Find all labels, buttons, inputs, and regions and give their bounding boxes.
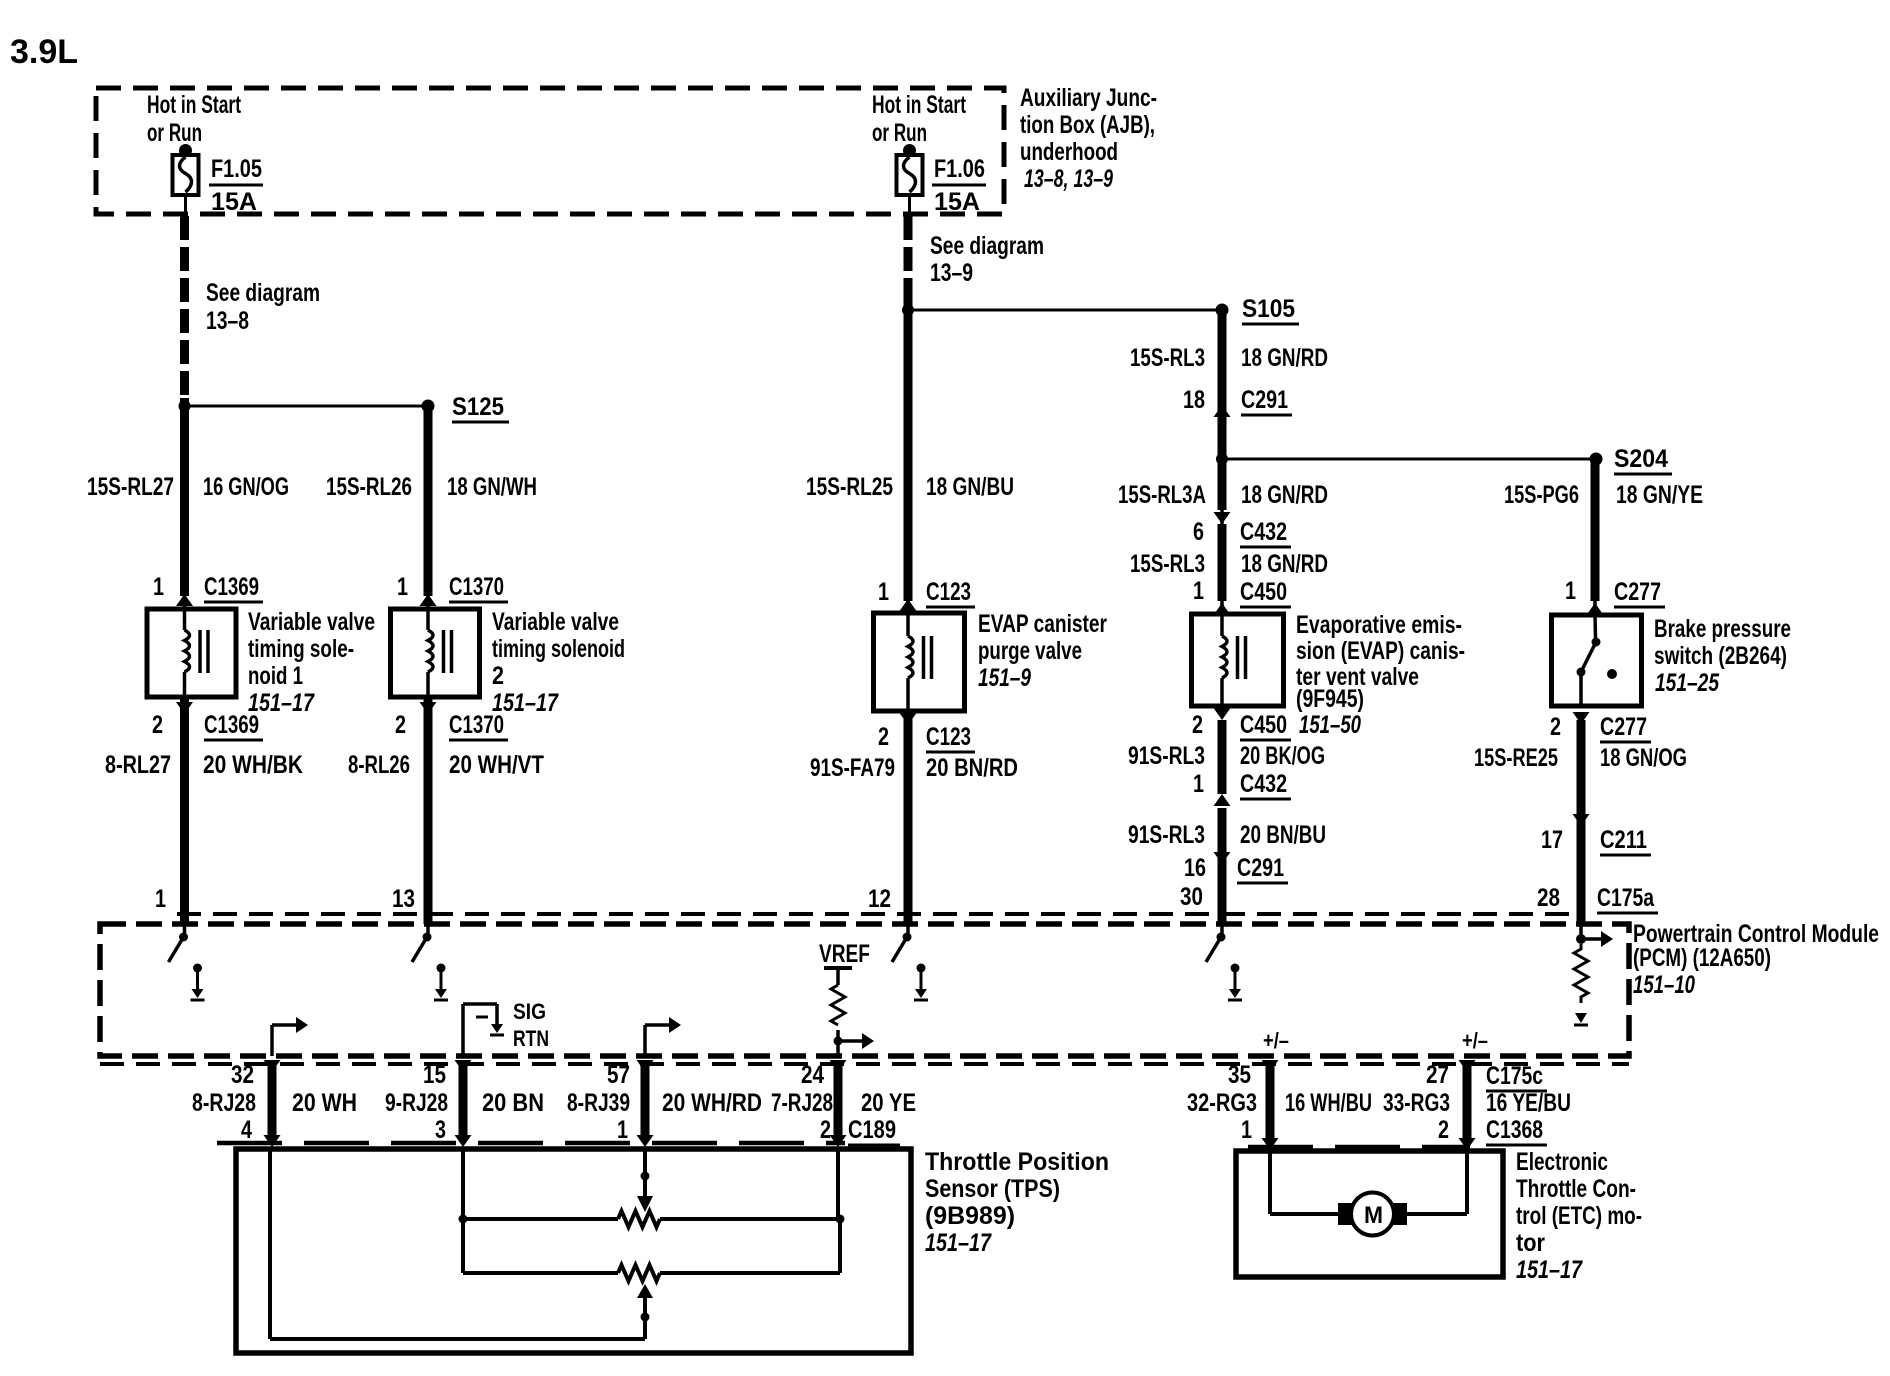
- powertrain control module PCM box (dashed): [100, 914, 1629, 1064]
- svg-text:16 GN/OG: 16 GN/OG: [203, 473, 289, 501]
- svg-text:C123: C123: [926, 578, 971, 606]
- svg-text:91S-FA79: 91S-FA79: [810, 754, 895, 782]
- label 15S-RL26 18 GN/WH: [326, 473, 537, 501]
- svg-text:15S-RL27: 15S-RL27: [87, 473, 174, 501]
- PCM driver switch for pin 13: [412, 924, 448, 1000]
- svg-text:or Run: or Run: [147, 119, 202, 147]
- connector arrow up at C277-1: [1587, 601, 1604, 615]
- EVAP canister vent valve (box with coil): [1192, 614, 1284, 706]
- svg-text:1: 1: [153, 573, 164, 601]
- svg-text:91S-RL3: 91S-RL3: [1128, 821, 1205, 849]
- label 8-RJ39 20 WH/RD: [567, 1089, 762, 1117]
- label PCM pin 35: [1228, 1061, 1251, 1089]
- label connector C1368: [1486, 1116, 1547, 1145]
- label pin 1 C432 (lower): [1193, 770, 1291, 799]
- svg-text:15S-RE25: 15S-RE25: [1474, 744, 1558, 772]
- svg-text:30: 30: [1180, 883, 1203, 911]
- motor M (ETC): [1338, 1193, 1407, 1236]
- brake pressure switch (box with switch contacts): [1552, 615, 1642, 706]
- svg-text:Brake pressure: Brake pressure: [1654, 615, 1791, 643]
- svg-text:1: 1: [617, 1116, 628, 1144]
- label pin 18 C291: [1183, 386, 1292, 415]
- PCM VREF circuit for pin 24: [819, 940, 874, 1056]
- svg-text:switch (2B264): switch (2B264): [1654, 642, 1787, 670]
- label pin 6 C432: [1193, 518, 1291, 547]
- wire splice link to S204: [1222, 458, 1596, 461]
- label Variable valve timing solenoid 2 151-17: [492, 608, 625, 717]
- connector arrow down at C1370-2: [395, 702, 508, 740]
- svg-text:6: 6: [1193, 518, 1204, 546]
- PCM driver switch for pin 12: [892, 924, 928, 1000]
- wire S125 to solenoid 2: [424, 406, 433, 596]
- svg-text:1: 1: [1241, 1116, 1252, 1144]
- svg-text:RTN: RTN: [513, 1026, 549, 1051]
- label C175c: [1486, 1062, 1547, 1091]
- label Powertrain Control Module (PCM) (12A650) 151-10: [1633, 920, 1879, 999]
- label 15S-RL3 18 GN/RD (above C291): [1130, 344, 1328, 372]
- svg-text:or Run: or Run: [872, 119, 927, 147]
- svg-text:M: M: [1364, 1202, 1383, 1229]
- svg-text:Throttle Con-: Throttle Con-: [1516, 1175, 1636, 1203]
- svg-text:2: 2: [878, 723, 889, 751]
- svg-text:sion (EVAP) canis-: sion (EVAP) canis-: [1296, 637, 1465, 665]
- splice S204: [1590, 445, 1673, 474]
- fuse F1.06: [897, 144, 923, 195]
- svg-text:28: 28: [1537, 884, 1560, 912]
- wire 3 to EVAP purge valve: [904, 302, 913, 601]
- label PCM pin 24: [801, 1061, 824, 1089]
- label 8-RL27 20 WH/BK: [105, 751, 303, 779]
- node junction on wire 3: [902, 304, 914, 316]
- label 91S-RL3 20 BK/OG: [1128, 742, 1325, 770]
- svg-text:15S-PG6: 15S-PG6: [1504, 481, 1579, 509]
- svg-text:32: 32: [231, 1061, 254, 1089]
- wire PCM pin 15 to TPS pin 3: [455, 1060, 472, 1147]
- PCM driver switch for pin 30: [1206, 924, 1242, 1000]
- label 7-RJ28 20 YE: [771, 1089, 916, 1117]
- ETC internal wire motor to pin 2: [1405, 1151, 1467, 1214]
- label TPS pin 3: [435, 1116, 446, 1144]
- ETC internal wire pin 1 to motor: [1270, 1151, 1340, 1214]
- svg-text:32-RG3: 32-RG3: [1187, 1089, 1257, 1117]
- splice S125: [422, 393, 510, 422]
- wire junction to C432: [1218, 459, 1227, 510]
- label 32-RG3 16 WH/BU: [1187, 1089, 1372, 1117]
- svg-text:timing sole-: timing sole-: [248, 635, 354, 663]
- svg-text:C450: C450: [1240, 578, 1287, 606]
- svg-text:15: 15: [423, 1061, 446, 1089]
- svg-text:15S-RL3: 15S-RL3: [1130, 550, 1205, 578]
- wire solenoid 1 to PCM pin 1: [180, 697, 189, 924]
- fuse F1.05: [173, 144, 199, 195]
- PCM output arrow for pin 57: [645, 1017, 681, 1056]
- svg-text:2: 2: [820, 1116, 831, 1144]
- svg-text:18 GN/WH: 18 GN/WH: [447, 473, 537, 501]
- label 33-RG3 16 YE/BU: [1383, 1089, 1571, 1117]
- svg-text:tor: tor: [1516, 1229, 1545, 1257]
- svg-text:2: 2: [1438, 1116, 1449, 1144]
- splice S105: [1216, 295, 1300, 324]
- wire C432 to C450: [1218, 524, 1227, 601]
- svg-text:8-RL26: 8-RL26: [348, 751, 410, 779]
- label Hot in Start or Run (left): [147, 91, 241, 147]
- svg-text:20 WH/VT: 20 WH/VT: [449, 751, 544, 779]
- svg-text:C277: C277: [1614, 578, 1661, 606]
- label See diagram 13-9: [930, 232, 1044, 287]
- svg-text:C1369: C1369: [204, 711, 259, 739]
- svg-text:151–10: 151–10: [1633, 971, 1695, 999]
- wire from F1.05 dashed segment (see diagram 13-8): [180, 216, 189, 398]
- svg-text:8-RJ28: 8-RJ28: [192, 1089, 256, 1117]
- label 91S-FA79 20 BN/RD: [810, 754, 1018, 782]
- variable valve timing solenoid 1 (box with coil): [147, 609, 236, 697]
- svg-text:18 GN/RD: 18 GN/RD: [1241, 550, 1328, 578]
- svg-text:8-RJ39: 8-RJ39: [567, 1089, 630, 1117]
- svg-text:Evaporative emis-: Evaporative emis-: [1296, 611, 1462, 639]
- TPS internal wire pin 1 wiper (arrow down): [637, 1151, 653, 1212]
- svg-text:purge valve: purge valve: [978, 637, 1082, 665]
- wire PCM pin 57 to TPS pin 1: [637, 1060, 654, 1147]
- label 8-RJ28 20 WH: [192, 1089, 357, 1117]
- label PCM pin 13: [392, 885, 415, 913]
- svg-text:151–17: 151–17: [925, 1229, 992, 1257]
- PCM output arrow for pin 32: [272, 1017, 308, 1056]
- svg-text:1: 1: [155, 885, 166, 913]
- svg-text:151–17: 151–17: [1516, 1256, 1583, 1284]
- label 15S-RE25 18 GN/OG: [1474, 744, 1687, 772]
- svg-text:151–9: 151–9: [978, 664, 1031, 692]
- label 15S-PG6 18 GN/YE: [1504, 481, 1703, 509]
- label Electronic Throttle Control (ETC) motor 151-17: [1516, 1148, 1642, 1284]
- connector arrow down at C291 lower (in-line): [1214, 852, 1231, 864]
- svg-text:91S-RL3: 91S-RL3: [1128, 742, 1205, 770]
- PCM input circuit for pin 28 (pull-up resistor to ground): [1574, 924, 1613, 1025]
- wire PCM pin 32 to TPS pin 4: [264, 1060, 281, 1147]
- label Throttle Position Sensor (TPS) (9B989) 151-17: [925, 1148, 1109, 1257]
- label 91S-RL3 20 BN/BU: [1128, 821, 1326, 849]
- connector arrow up at C123-1: [900, 599, 917, 613]
- label TPS pin 4: [241, 1116, 252, 1144]
- svg-text:F1.06: F1.06: [934, 155, 985, 183]
- svg-text:timing solenoid: timing solenoid: [492, 635, 625, 663]
- connector C189 mating line (dashed): [217, 1141, 845, 1146]
- svg-text:See diagram: See diagram: [930, 232, 1044, 260]
- svg-text:2: 2: [1550, 713, 1561, 741]
- svg-text:27: 27: [1426, 1061, 1449, 1089]
- wire C450 to C432 (lower): [1218, 720, 1227, 794]
- svg-text:C175a: C175a: [1597, 884, 1655, 912]
- svg-text:1: 1: [397, 573, 408, 601]
- svg-text:151–25: 151–25: [1655, 669, 1720, 697]
- label TPS pin 2: [820, 1116, 831, 1144]
- wire splice link to S125: [185, 405, 429, 408]
- svg-text:(9F945): (9F945): [1296, 685, 1364, 713]
- label PCM pin 1: [155, 885, 166, 913]
- svg-text:C123: C123: [926, 723, 971, 751]
- connector arrow down at C432 (in-line): [1214, 510, 1231, 524]
- title 3.9L: [10, 33, 78, 71]
- label pin 16 C291 (lower): [1184, 854, 1288, 883]
- label 15S-RL3 18 GN/RD (below C432): [1130, 550, 1328, 578]
- svg-text:9-RJ28: 9-RJ28: [385, 1089, 448, 1117]
- svg-text:C1368: C1368: [1486, 1116, 1543, 1144]
- label 9-RJ28 20 BN: [385, 1089, 544, 1117]
- label PCM pin 27: [1426, 1061, 1449, 1089]
- svg-text:20 BN/RD: 20 BN/RD: [926, 754, 1018, 782]
- variable valve timing solenoid 2 (box with coil): [391, 609, 480, 697]
- wire C211 to PCM pin 28: [1577, 826, 1586, 924]
- label ETC pin 1: [1241, 1116, 1252, 1144]
- svg-text:Hot in Start: Hot in Start: [147, 91, 241, 119]
- wire S105 down to C291: [1218, 310, 1227, 405]
- svg-text:57: 57: [607, 1061, 630, 1089]
- svg-text:13–8, 13–9: 13–8, 13–9: [1024, 165, 1113, 193]
- connector arrow up at C1369-1: [176, 594, 193, 609]
- wire PCM pin 24 to TPS pin 2: [830, 1060, 847, 1147]
- svg-text:+/–: +/–: [1263, 1028, 1289, 1053]
- svg-text:33-RG3: 33-RG3: [1383, 1089, 1450, 1117]
- label Hot in Start or Run (right): [872, 91, 966, 147]
- label TPS pin 1: [617, 1116, 628, 1144]
- wire EVAP purge valve to PCM pin 12: [904, 711, 913, 924]
- label pin 1 C277: [1565, 577, 1665, 607]
- svg-text:15S-RL3: 15S-RL3: [1130, 344, 1205, 372]
- svg-text:18 GN/YE: 18 GN/YE: [1616, 481, 1703, 509]
- label Brake pressure switch (2B264) 151-25: [1654, 615, 1791, 697]
- label 15S-RL25 18 GN/BU: [806, 473, 1014, 501]
- svg-text:17: 17: [1541, 826, 1563, 854]
- svg-text:15A: 15A: [211, 188, 257, 216]
- label +/- at pin 27: [1462, 1028, 1488, 1053]
- svg-text:VREF: VREF: [819, 940, 870, 968]
- svg-text:35: 35: [1228, 1061, 1251, 1089]
- TPS internal wire pin 2 (VREF side): [838, 1151, 840, 1273]
- wire C291 to PCM pin 30: [1218, 864, 1227, 924]
- svg-text:18 GN/BU: 18 GN/BU: [926, 473, 1014, 501]
- svg-text:Variable valve: Variable valve: [248, 608, 375, 636]
- svg-text:16 YE/BU: 16 YE/BU: [1486, 1089, 1571, 1117]
- svg-text:2: 2: [152, 711, 163, 739]
- svg-text:15S-RL25: 15S-RL25: [806, 473, 893, 501]
- svg-text:C211: C211: [1600, 826, 1647, 854]
- svg-text:3.9L: 3.9L: [10, 33, 78, 71]
- label SIG RTN: [513, 999, 549, 1051]
- wire solenoid 2 to PCM pin 13: [424, 697, 433, 924]
- connector arrow down at C123-2: [878, 713, 975, 752]
- label PCM pin 15: [423, 1061, 446, 1089]
- svg-text:151–50: 151–50: [1299, 711, 1361, 739]
- wire C277 to C211: [1577, 720, 1586, 826]
- svg-text:15A: 15A: [934, 188, 980, 216]
- svg-text:(9B989): (9B989): [925, 1202, 1015, 1230]
- label pin 1 C450: [1193, 577, 1291, 607]
- node junction on wire 4: [1216, 453, 1228, 465]
- connector arrow down at C277-2: [1550, 712, 1651, 742]
- wire 1 to solenoid 1: [180, 398, 189, 596]
- svg-text:C432: C432: [1240, 518, 1287, 546]
- svg-text:16: 16: [1184, 854, 1206, 882]
- svg-text:C291: C291: [1241, 386, 1288, 414]
- label 8-RL26 20 WH/VT: [348, 751, 544, 779]
- TPS lower wiper (arrow up): [637, 1284, 653, 1339]
- svg-text:Electronic: Electronic: [1516, 1148, 1608, 1176]
- svg-text:Auxiliary Junc-: Auxiliary Junc-: [1020, 84, 1157, 112]
- svg-text:24: 24: [801, 1061, 824, 1089]
- svg-text:1: 1: [878, 578, 889, 606]
- connector arrow down at C450-2: [1192, 708, 1361, 740]
- svg-text:C432: C432: [1240, 770, 1287, 798]
- label connector C189: [848, 1116, 900, 1145]
- svg-text:18 GN/RD: 18 GN/RD: [1241, 481, 1328, 509]
- svg-text:20 YE: 20 YE: [861, 1089, 916, 1117]
- connector arrow up at C450-1: [1214, 601, 1231, 615]
- svg-text:trol (ETC) mo-: trol (ETC) mo-: [1516, 1202, 1642, 1230]
- connector arrow down at C211 (in-line): [1573, 814, 1590, 826]
- TPS internal wire pin 3: [461, 1151, 465, 1273]
- wire from F1.06 dashed segment (see diagram 13-9): [904, 216, 913, 302]
- label pin 28 C175a: [1537, 884, 1658, 913]
- svg-text:underhood: underhood: [1020, 138, 1118, 166]
- label ETC pin 2: [1438, 1116, 1449, 1144]
- svg-text:Sensor (TPS): Sensor (TPS): [925, 1175, 1060, 1203]
- label Variable valve timing solenoid 1 151-17: [248, 608, 375, 717]
- label 15S-RL27 16 GN/OG: [87, 473, 289, 501]
- svg-text:1: 1: [1565, 577, 1576, 605]
- label 15S-RL3A 18 GN/RD: [1118, 481, 1328, 509]
- svg-text:13–9: 13–9: [930, 259, 973, 287]
- label Evaporative emission (EVAP) canister vent valve (9F945): [1296, 611, 1465, 713]
- svg-text:13–8: 13–8: [206, 307, 249, 335]
- svg-text:20 WH/RD: 20 WH/RD: [662, 1089, 762, 1117]
- svg-text:2: 2: [492, 662, 504, 690]
- label F1.05 15A: [209, 155, 263, 216]
- svg-text:4: 4: [241, 1116, 252, 1144]
- connector arrow up at C432 lower (in-line): [1214, 794, 1231, 806]
- svg-text:tion Box (AJB),: tion Box (AJB),: [1020, 111, 1155, 139]
- svg-text:12: 12: [868, 885, 891, 913]
- svg-text:1: 1: [1193, 770, 1204, 798]
- svg-text:C189: C189: [848, 1116, 896, 1144]
- svg-text:2: 2: [395, 711, 406, 739]
- svg-text:C291: C291: [1237, 854, 1284, 882]
- label F1.06 15A: [932, 155, 986, 216]
- label See diagram 13-8: [206, 279, 320, 335]
- svg-text:C1369: C1369: [204, 573, 259, 601]
- svg-text:noid 1: noid 1: [248, 662, 303, 690]
- svg-text:S204: S204: [1614, 445, 1668, 473]
- EVAP canister purge valve (box with coil): [874, 613, 965, 711]
- connector arrow down at C1369-2: [152, 702, 263, 740]
- svg-text:20 WH/BK: 20 WH/BK: [203, 751, 303, 779]
- wire C432 to C291 (lower): [1218, 808, 1227, 864]
- label PCM pin 57: [607, 1061, 630, 1089]
- wire splice link to S105: [908, 309, 1222, 312]
- label pin 1 C1370 (top): [397, 573, 508, 602]
- connector arrow up at C291 (in-line): [1214, 405, 1231, 459]
- svg-text:F1.05: F1.05: [211, 155, 262, 183]
- label PCM pin 12: [868, 885, 891, 913]
- wire fuse F1.05 to AJB border: [184, 195, 187, 216]
- svg-text:C450: C450: [1240, 711, 1287, 739]
- connector C1368 mating line (dashed): [1248, 1145, 1470, 1150]
- svg-text:18 GN/RD: 18 GN/RD: [1241, 344, 1328, 372]
- wire fuse F1.06 to AJB border: [908, 195, 911, 216]
- wire S204 to brake pressure switch: [1591, 459, 1600, 601]
- TPS potentiometer resistor 2: [463, 1265, 840, 1281]
- svg-text:+/–: +/–: [1462, 1028, 1488, 1053]
- svg-text:15S-RL26: 15S-RL26: [326, 473, 412, 501]
- node junction on wire 1: [179, 400, 191, 412]
- svg-text:(PCM) (12A650): (PCM) (12A650): [1633, 944, 1771, 972]
- svg-text:S105: S105: [1242, 295, 1295, 323]
- label PCM pin 30: [1180, 883, 1203, 911]
- svg-text:8-RL27: 8-RL27: [105, 751, 171, 779]
- svg-text:18: 18: [1183, 386, 1205, 414]
- svg-text:SIG: SIG: [513, 999, 546, 1024]
- label +/- at pin 35: [1263, 1028, 1289, 1053]
- svg-text:Variable valve: Variable valve: [492, 608, 619, 636]
- label PCM pin 32: [231, 1061, 254, 1089]
- svg-text:C277: C277: [1600, 713, 1647, 741]
- label Auxiliary Junction Box (AJB) underhood 13-8 13-9: [1020, 84, 1157, 193]
- svg-text:3: 3: [435, 1116, 446, 1144]
- svg-text:C1370: C1370: [449, 711, 504, 739]
- PCM SIG RTN circuit for pin 15: [463, 1004, 504, 1056]
- svg-text:2: 2: [1192, 711, 1203, 739]
- electronic throttle control ETC motor box: [1236, 1151, 1503, 1277]
- svg-text:C1370: C1370: [449, 573, 504, 601]
- label pin 17 C211: [1541, 826, 1651, 855]
- svg-text:See diagram: See diagram: [206, 279, 320, 307]
- label EVAP canister purge valve 151-9: [978, 610, 1107, 692]
- svg-text:20 BK/OG: 20 BK/OG: [1240, 742, 1325, 770]
- svg-text:20 BN/BU: 20 BN/BU: [1240, 821, 1326, 849]
- svg-text:13: 13: [392, 885, 415, 913]
- svg-text:EVAP canister: EVAP canister: [978, 610, 1107, 638]
- auxiliary junction box AJB (dashed): [96, 88, 1004, 214]
- label pin 1 C123 (top): [878, 578, 975, 607]
- svg-text:S125: S125: [452, 393, 504, 421]
- svg-text:Hot in Start: Hot in Start: [872, 91, 966, 119]
- wire PCM pin 35 to ETC pin 1: [1262, 1060, 1279, 1150]
- svg-text:Throttle Position: Throttle Position: [925, 1148, 1109, 1176]
- TPS internal wire pin 4 to lower wiper: [270, 1151, 645, 1339]
- svg-text:20 BN: 20 BN: [482, 1089, 544, 1117]
- connector arrow up at C1370-1: [420, 594, 437, 609]
- svg-text:1: 1: [1193, 577, 1204, 605]
- svg-text:7-RJ28: 7-RJ28: [771, 1089, 833, 1117]
- svg-text:20 WH: 20 WH: [292, 1089, 357, 1117]
- svg-text:15S-RL3A: 15S-RL3A: [1118, 481, 1206, 509]
- svg-text:16 WH/BU: 16 WH/BU: [1285, 1089, 1372, 1117]
- label pin 1 C1369 (top): [153, 573, 263, 602]
- svg-text:18 GN/OG: 18 GN/OG: [1600, 744, 1687, 772]
- PCM driver switch for pin 1: [169, 924, 205, 1000]
- TPS potentiometer resistor 1: [459, 1211, 845, 1227]
- throttle position sensor TPS box: [236, 1149, 911, 1353]
- wire PCM pin 27 to ETC pin 2: [1459, 1060, 1476, 1150]
- svg-text:C175c: C175c: [1486, 1062, 1543, 1090]
